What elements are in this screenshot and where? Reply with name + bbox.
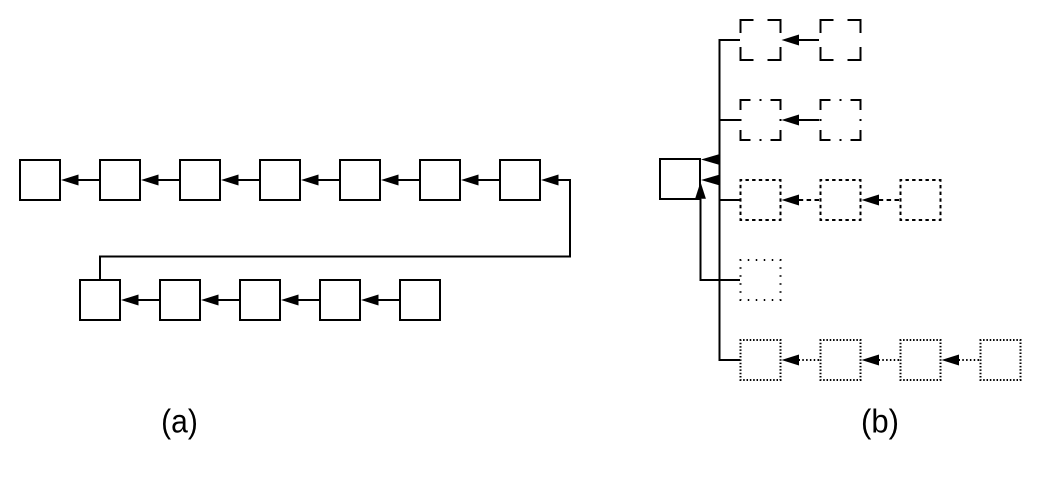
node C2 (long dash) <box>821 20 861 60</box>
arrow A3->A2 <box>141 175 179 186</box>
node G3 (dotted) <box>901 340 941 380</box>
node E3 (dashed) <box>901 180 941 220</box>
node B2 <box>160 280 200 320</box>
arrow B5->B4 <box>361 295 399 306</box>
node D2 (dash-dot) <box>821 100 861 140</box>
node B4 <box>320 280 360 320</box>
arrow D2->D1 <box>782 115 820 126</box>
arrow C2->C1 <box>782 35 820 46</box>
arrow G2->G1 <box>782 355 820 366</box>
arrow A4->A3 <box>221 175 259 186</box>
node D1 (dash-dot) <box>741 100 781 140</box>
arrow B2->B1 <box>121 295 159 306</box>
arrow A6->A5 <box>381 175 419 186</box>
svg-text:(b): (b) <box>861 403 899 440</box>
arrow E3->E2 <box>862 195 900 206</box>
arrow G3->G2 <box>862 355 900 366</box>
node A2 <box>100 160 140 200</box>
node E2 (dashed) <box>821 180 861 220</box>
node A1 <box>20 160 60 200</box>
node A7 <box>500 160 540 200</box>
node A6 <box>420 160 460 200</box>
arrow B4->B3 <box>281 295 319 306</box>
arrow trunk->H lower <box>701 175 719 186</box>
wire B1->A7 wrap-around connector with arrowhead <box>100 175 570 280</box>
arrow row4->H upward with wire <box>695 182 740 280</box>
figure (b) head node H (solid) <box>660 159 700 199</box>
node A4 <box>260 160 300 200</box>
node F1 (sparse dotted) <box>741 260 781 300</box>
arrow G4->G3 <box>942 355 980 366</box>
node G1 (dotted) <box>741 340 781 380</box>
node B1 <box>80 280 120 320</box>
arrow B3->B2 <box>201 295 239 306</box>
node G4 (dotted) <box>981 340 1021 380</box>
node B5 <box>400 280 440 320</box>
arrow trunk->H upper <box>701 154 719 165</box>
arrow A2->A1 <box>61 175 99 186</box>
node G2 (dotted) <box>821 340 861 380</box>
arrow A5->A4 <box>301 175 339 186</box>
node C1 (long dash) <box>741 20 781 60</box>
arrow A7->A6 <box>461 175 499 186</box>
node A5 <box>340 160 380 200</box>
node A3 <box>180 160 220 200</box>
svg-text:(a): (a) <box>161 403 198 440</box>
wire stub trunk-to-row3 <box>720 199 741 201</box>
node E1 (dashed) <box>741 180 781 220</box>
node B3 <box>240 280 280 320</box>
wire trunk vertical with end stubs to row1 and row5 <box>720 40 741 360</box>
arrow E2->E1 <box>782 195 820 206</box>
wire stub trunk-to-row2 <box>720 119 741 121</box>
